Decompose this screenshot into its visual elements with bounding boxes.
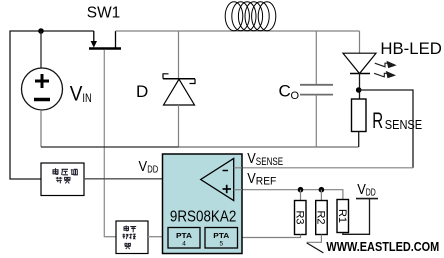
resistor R2 xyxy=(316,201,328,235)
svg-text:SENSE: SENSE xyxy=(256,156,283,168)
wire Vin top xyxy=(40,31,42,69)
svg-text:IN: IN xyxy=(82,91,91,105)
svg-text:PTA: PTA xyxy=(176,231,193,240)
wire Vref run xyxy=(234,190,343,200)
node sense junction dot xyxy=(356,87,362,93)
svg-text:9RS08KA2: 9RS08KA2 xyxy=(170,208,236,225)
svg-text:D: D xyxy=(136,82,148,101)
source VIN xyxy=(22,68,63,110)
svg-text:R2: R2 xyxy=(315,210,327,224)
inductor L xyxy=(225,2,276,31)
resistor R1 xyxy=(337,200,349,233)
wire level shifter to PTA4 xyxy=(148,236,168,238)
wire top rail to LED xyxy=(116,30,360,32)
LED light arrows xyxy=(374,62,395,78)
wire Co bottom xyxy=(315,95,317,147)
svg-text:R1: R1 xyxy=(336,209,348,223)
pin PTA4 box xyxy=(168,228,200,249)
wire Vsense run xyxy=(234,167,413,169)
svg-text:DD: DD xyxy=(366,186,376,198)
wire LED cathode xyxy=(359,74,361,100)
regulator box xyxy=(41,163,84,196)
wire diode top xyxy=(178,31,180,79)
svg-text:V: V xyxy=(247,170,256,187)
resistor RSENSE xyxy=(352,99,367,132)
svg-text:O: O xyxy=(291,90,300,102)
pin PTA5 box xyxy=(205,228,238,249)
wire regulator to IC VDD xyxy=(84,178,163,180)
callout line to watermark xyxy=(307,243,324,253)
wire R3 top xyxy=(300,190,302,201)
svg-text:4: 4 xyxy=(182,241,186,248)
LED D2 xyxy=(343,53,376,73)
wire Co top xyxy=(315,31,317,84)
resistor R3 xyxy=(295,201,307,235)
wire Vin bottom xyxy=(40,110,42,147)
wire R2 bottom stub xyxy=(307,235,322,243)
node R2 top dot xyxy=(319,187,325,193)
svg-text:C: C xyxy=(279,82,291,101)
wire diode bottom xyxy=(178,105,180,147)
wire R2 top xyxy=(320,190,322,201)
svg-text:DD: DD xyxy=(147,164,158,176)
node R3 top dot xyxy=(298,187,304,193)
svg-text:PTA: PTA xyxy=(213,231,230,240)
svg-text:WWW.EASTLED.COM: WWW.EASTLED.COM xyxy=(326,239,439,254)
svg-text:V: V xyxy=(70,83,83,106)
node A junction dot xyxy=(38,28,44,34)
transistor SW1 xyxy=(89,31,121,49)
svg-text:R3: R3 xyxy=(293,210,305,224)
svg-text:REF: REF xyxy=(256,176,277,188)
svg-text:V: V xyxy=(357,181,366,198)
svg-text:R: R xyxy=(372,108,383,133)
svg-text:HB-LED: HB-LED xyxy=(380,39,442,58)
wire R3 bottom to PTA5 xyxy=(238,235,301,238)
wire bottom rail xyxy=(41,146,179,148)
wire LED top xyxy=(359,31,361,53)
wire R1 bottom to VDD xyxy=(343,199,370,235)
diode D (schottky) xyxy=(163,74,195,105)
svg-text:V: V xyxy=(247,150,256,167)
regulator text 电压调 / 节器 (pseudo glyphs) xyxy=(53,168,77,183)
capacitor Co xyxy=(300,84,333,86)
level shifter text 电平 / 转换 / 器 (pseudo glyphs) xyxy=(122,226,136,250)
op-amp U1 xyxy=(201,158,234,200)
wire gate of SW1 down to level shifter xyxy=(104,50,116,237)
level shifter box xyxy=(116,221,148,254)
wire Rsense bottom xyxy=(358,132,360,148)
VDD supply bar right xyxy=(356,198,378,200)
wire top-left outer loop xyxy=(10,31,41,179)
wire top from node to SW1 source xyxy=(41,30,94,32)
svg-text:SENSE: SENSE xyxy=(385,117,423,132)
svg-text:5: 5 xyxy=(219,241,223,248)
IC 9RS08KA2 box xyxy=(163,154,243,254)
svg-text:SW1: SW1 xyxy=(87,4,120,21)
wire sense feedback xyxy=(359,90,413,168)
svg-text:V: V xyxy=(139,158,148,175)
